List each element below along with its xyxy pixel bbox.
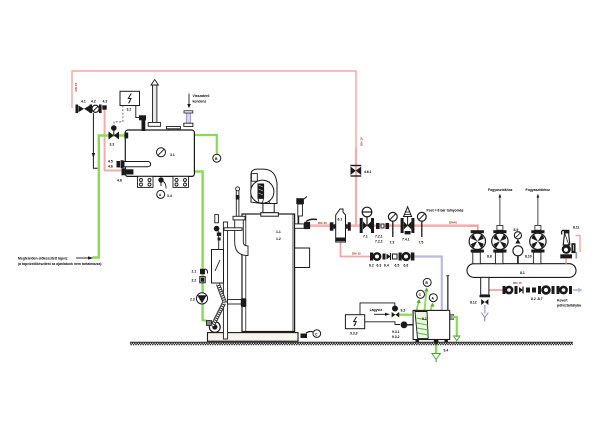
burner assembly [251, 169, 279, 216]
label Lagyviz [370, 308, 390, 316]
svg-text:4.8: 4.8 [117, 179, 122, 183]
flue stack and elbow [233, 216, 248, 255]
valve 3.3 motor valve [109, 125, 120, 146]
wire tank fill pink drop [105, 107, 124, 171]
svg-text:9.2: 9.2 [401, 309, 406, 313]
svg-text:DN40: DN40 [449, 221, 457, 225]
svg-text:7.2.1: 7.2.1 [375, 235, 383, 239]
valve 8.8 [469, 230, 492, 264]
svg-text:6.4: 6.4 [384, 264, 389, 268]
node B [423, 278, 431, 286]
svg-text:1.1: 1.1 [276, 230, 281, 234]
svg-text:Pset = 8 bar túlnyomás: Pset = 8 bar túlnyomás [427, 209, 464, 213]
level gauge box [212, 250, 224, 284]
gauge 7.3 [388, 212, 397, 244]
label feedwater note [18, 256, 101, 266]
svg-text:9.3.3: 9.3.3 [350, 332, 358, 336]
svg-text:6.5: 6.5 [395, 264, 400, 268]
valve 8.12 [470, 299, 488, 322]
pump motor at base [207, 321, 221, 333]
boiler top probe [236, 187, 240, 217]
wire mixed makeup lavender arrow [573, 288, 583, 293]
flex conduit to pump [213, 284, 226, 326]
valve 2.1 [192, 269, 208, 274]
tank support feet [138, 176, 189, 187]
svg-text:8.12: 8.12 [470, 301, 477, 305]
boiler base frame [208, 333, 299, 342]
wire softener drain green [432, 339, 441, 362]
svg-text:2.3: 2.3 [190, 298, 195, 302]
svg-text:6.6: 6.6 [404, 264, 409, 268]
blowdown valve and node C [301, 330, 321, 338]
svg-text:6.1: 6.1 [338, 218, 343, 222]
svg-text:9.1: 9.1 [422, 317, 427, 321]
label Visszatero kondenz [187, 94, 209, 109]
separator 6.1 [330, 209, 351, 242]
svg-text:7.5: 7.5 [419, 241, 424, 245]
valve group 6.2-6.6 [369, 252, 414, 268]
node B right of tank [213, 154, 221, 162]
svg-text:8.11: 8.11 [573, 226, 580, 230]
gauge 7.5 [417, 212, 426, 244]
svg-text:8.1: 8.1 [520, 271, 525, 275]
svg-text:8.9: 8.9 [514, 228, 519, 232]
svg-text:DN 15: DN 15 [352, 252, 361, 256]
control signal dashed to valve 3.3 [114, 106, 123, 127]
boiler safety valve [296, 197, 307, 217]
svg-text:7.2.2: 7.2.2 [375, 240, 383, 244]
valve group 8.2-8.7 [503, 285, 573, 301]
ground hatched floor line [130, 341, 573, 343]
svg-text:4.6: 4.6 [108, 165, 113, 169]
controller box 9.3.3 [345, 315, 364, 336]
svg-text:Fogyasztókhoz: Fogyasztókhoz [488, 188, 513, 192]
check valve 2.2 [192, 277, 206, 283]
fittings 7.2.1 7.2.2 [375, 223, 389, 244]
strainer blowoff black line [92, 113, 98, 168]
label Kevert potviztartalyba [557, 299, 581, 308]
svg-text:7.1: 7.1 [363, 235, 368, 239]
tank manhole [166, 127, 180, 131]
svg-text:4.2: 4.2 [91, 100, 96, 104]
elbow 4.8 [117, 168, 133, 182]
pump 2.3 [190, 293, 208, 304]
steam sparger 4.5 4.6 [108, 160, 151, 169]
svg-text:DN 15: DN 15 [513, 281, 522, 285]
boiler side box [295, 248, 310, 268]
svg-text:2.2: 2.2 [192, 279, 197, 283]
svg-text:3.1: 3.1 [170, 153, 175, 157]
svg-text:9.3.2: 9.3.2 [392, 335, 400, 339]
svg-text:kondenz: kondenz [193, 100, 207, 104]
valve 4.1 [76, 100, 90, 114]
probe 3.4 and node A [157, 177, 172, 198]
svg-text:7.4.1: 7.4.1 [402, 238, 410, 242]
svg-text:8.8: 8.8 [487, 255, 492, 259]
tank condensate inlet sight glass [184, 111, 193, 127]
strainer 4.2 [90, 100, 102, 114]
valve 4.6.1 [351, 166, 372, 177]
valve 4.3 [102, 100, 107, 110]
svg-text:7.3: 7.3 [390, 241, 395, 245]
svg-text:Megfelelően előkészített tápví: Megfelelően előkészített tápvíz [18, 257, 68, 261]
manifold 8.1 body [467, 264, 576, 278]
probe line to tank [136, 106, 146, 131]
valve 9.2 [392, 306, 406, 318]
wire manifold blowdown line pink stub [489, 289, 504, 291]
svg-text:Kevert: Kevert [557, 299, 568, 303]
svg-text:3.3: 3.3 [110, 143, 115, 147]
svg-text:9.3.1: 9.3.1 [392, 330, 400, 334]
svg-text:4.3: 4.3 [103, 100, 108, 104]
level gauge standpipe [223, 222, 246, 339]
wire steam supply loop pink [72, 71, 356, 226]
svg-text:(a tápvízelőkészítést az ajánl: (a tápvízelőkészítést az ajánlatunk nem … [18, 262, 101, 266]
softener vent pipe [447, 276, 449, 310]
svg-text:6.2: 6.2 [369, 264, 374, 268]
tank vent pipe [148, 80, 160, 127]
svg-text:DN 15: DN 15 [360, 137, 364, 146]
tank 3.1 feedwater tank body [125, 130, 194, 176]
consumer arrows [488, 188, 550, 230]
svg-text:DN 15: DN 15 [74, 82, 78, 91]
svg-text:8.10: 8.10 [525, 255, 532, 259]
brine valve 9.3.1 9.3.2 [392, 321, 414, 339]
level gauge fittings [214, 215, 221, 250]
softener unit 9.1 [413, 310, 450, 342]
svg-text:6.3: 6.3 [377, 264, 382, 268]
valve 8.10 [525, 230, 546, 264]
wire pump suction green [194, 172, 209, 322]
valve mid [492, 230, 508, 264]
node A [429, 294, 437, 302]
svg-text:4.6.1: 4.6.1 [364, 170, 372, 174]
svg-text:3.2: 3.2 [127, 108, 132, 112]
svg-text:4.5: 4.5 [108, 160, 113, 164]
wire softener inlet green [398, 314, 412, 316]
steam outlet stub and lever valve [295, 216, 317, 229]
svg-text:8.2 -8.7: 8.2 -8.7 [531, 297, 543, 301]
svg-text:Lágyvíz: Lágyvíz [370, 308, 383, 312]
wire main steam line pink [296, 226, 479, 231]
svg-text:4.1: 4.1 [81, 100, 86, 104]
svg-text:2.1: 2.1 [192, 270, 197, 274]
svg-text:3.4: 3.4 [167, 194, 172, 198]
wire softener outlet arrows green [417, 288, 435, 311]
control lines [360, 303, 400, 325]
wire softener overflow green [450, 314, 460, 341]
controller box 3.2 [120, 91, 140, 111]
svg-text:pótvíztartályba: pótvíztartályba [557, 304, 581, 308]
wire tank to B green [194, 135, 217, 154]
svg-text:DN 40: DN 40 [318, 221, 327, 225]
wire make-up lavender to softener [415, 257, 442, 311]
boiler 1.1 1.2 body [242, 214, 295, 332]
tank inlet nozzle [124, 133, 128, 139]
svg-text:Visszatérő: Visszatérő [193, 94, 210, 98]
manifold drain pocket [480, 277, 491, 297]
svg-text:Fogyasztókhoz: Fogyasztókhoz [526, 188, 551, 192]
PRV 7.4.1 [401, 207, 415, 242]
svg-text:1.2: 1.2 [276, 237, 281, 241]
svg-text:9.4: 9.4 [444, 349, 449, 353]
wire separator drain pink [341, 242, 371, 257]
node C [417, 290, 425, 298]
valve 7.1 [360, 207, 374, 238]
gauge 8.9 and meter [513, 228, 523, 264]
safety valve 8.11 [560, 226, 580, 264]
wire feedwater supply green [93, 136, 126, 258]
